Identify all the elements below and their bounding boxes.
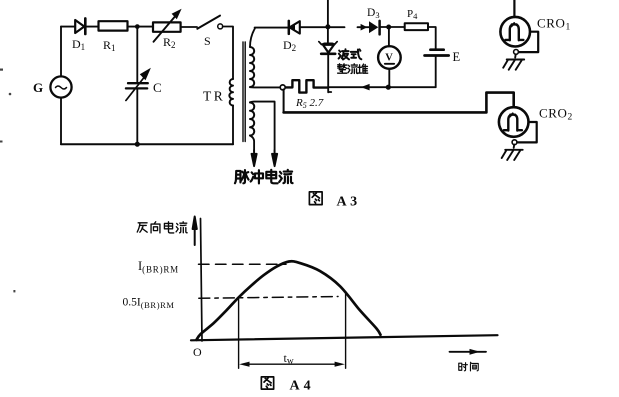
voltmeter V wires (388, 27, 390, 87)
capacitor C arrow (126, 68, 151, 101)
svg-text:D2: D2 (283, 38, 296, 53)
svg-text:R5 2.7: R5 2.7 (295, 97, 324, 110)
svg-text:D3: D3 (367, 7, 380, 20)
bottom rail battery to stack (328, 86, 388, 88)
junction dot C bottom (135, 142, 140, 147)
generator G circle (50, 76, 71, 97)
caption 图 A4 (261, 377, 314, 394)
switch S contact (218, 24, 223, 29)
wire junction up to top edge (327, 0, 329, 27)
svg-text:G: G (33, 80, 43, 95)
label 波式 (339, 49, 362, 59)
secondary2 bottom terminal wire (250, 136, 254, 153)
svg-text:V: V (385, 52, 393, 63)
current pulse curve (197, 261, 381, 340)
transformer secondary 1 coil (upper) (250, 47, 254, 87)
diode D1 (75, 18, 85, 34)
wire R2 to switch (181, 26, 197, 28)
capacitor C branch wire lower (136, 89, 138, 144)
battery E plates (425, 50, 449, 56)
diode D2 (pointing left) (289, 21, 300, 34)
transformer TR primary coil (229, 79, 233, 106)
secondary2 top terminal wire (250, 102, 275, 152)
svg-text:O: O (193, 345, 202, 359)
svg-text:R1: R1 (103, 38, 116, 53)
wire secondary1 top to D2 (250, 28, 288, 47)
junction dot voltmeter bottom (386, 85, 391, 90)
tw arrow (239, 362, 345, 367)
wire G bottom to bottom rail (60, 98, 62, 145)
label 反向电流 (137, 222, 187, 233)
transformer secondary 2 coil (lower) (250, 103, 254, 136)
wire primary bottom to bottom rail (232, 106, 234, 145)
wire R1 to node (128, 26, 154, 28)
svg-text:CRO1: CRO1 (537, 16, 571, 33)
label 脉冲电流 (235, 170, 293, 184)
label 时间 (459, 362, 478, 371)
svg-text:R2: R2 (163, 35, 176, 50)
wire battery bottom to rail (388, 57, 435, 87)
wire switch to transformer primary (223, 27, 233, 80)
x-axis (191, 335, 498, 340)
svg-text:E: E (453, 50, 461, 64)
svg-text:tw: tw (284, 351, 294, 367)
wire D2 to junction and beyond with scan gap (300, 26, 370, 28)
resistor R4 (405, 23, 428, 30)
junction dot at voltmeter top (386, 25, 391, 30)
diode D3 (369, 21, 380, 35)
node junction at top of C (135, 24, 140, 29)
svg-text:TR: TR (203, 89, 225, 104)
svg-text:P4: P4 (407, 8, 418, 21)
svg-text:I(BR)RM: I(BR)RM (138, 259, 179, 275)
svg-text:A4: A4 (290, 379, 315, 394)
dash-dot level line 0.5 I(BR)RM (199, 297, 338, 299)
time axis arrow (450, 349, 487, 355)
tw right boundary line (345, 292, 347, 369)
CRO1 input wire from top edge (513, 0, 515, 17)
label 整流堆 (338, 64, 368, 74)
node open circle secondary1 bottom (280, 85, 285, 90)
capacitor C plates (126, 83, 148, 88)
svg-text:CRO2: CRO2 (539, 106, 573, 123)
rectifier stack diode (pointing down) (319, 42, 337, 54)
long feed wire to CRO2 (284, 93, 514, 113)
tw left boundary line (238, 297, 240, 368)
pulse current arrow left (252, 150, 257, 166)
rectifier stack wire from junction down (327, 27, 329, 44)
variable resistor R2 (153, 9, 182, 42)
rectifier stack wire to rail with stub (328, 54, 331, 93)
capacitor C branch wire upper (136, 27, 138, 83)
wire top rail G to D1 (61, 26, 75, 28)
switch S lever (197, 16, 220, 29)
rectifier bottom rail arrow (left) (361, 84, 370, 91)
svg-text:D1: D1 (72, 37, 85, 52)
dashed level line I(BR)RM (199, 263, 287, 265)
scan specks (0, 69, 15, 293)
wire secondary1 bottom to node (250, 86, 280, 88)
oscilloscope CRO2 (499, 107, 537, 160)
voltmeter V letter and minus (385, 52, 394, 63)
wire D3 to R4 (380, 26, 405, 28)
y-axis (201, 219, 203, 342)
caption 图 A3 (309, 192, 360, 210)
pulse current arrow right (272, 150, 277, 166)
wire D1 to R1 (85, 26, 98, 28)
svg-text:0.5I(BR)RM: 0.5I(BR)RM (123, 297, 175, 311)
y-axis arrow mark (193, 217, 197, 246)
transformer core lines (243, 42, 245, 142)
wire node to CRO2 feed (283, 89, 285, 111)
svg-text:S: S (204, 34, 211, 48)
resistor R5 squarewave (285, 80, 328, 92)
wire G top to top rail (60, 27, 62, 77)
resistor R1 (99, 21, 128, 30)
svg-text:C: C (153, 80, 162, 95)
junction dot D2 node (325, 24, 330, 29)
bottom rail of left loop (61, 143, 233, 145)
oscilloscope CRO1 (500, 17, 538, 70)
current arrow before D3 (361, 24, 368, 31)
svg-text:A3: A3 (337, 195, 361, 210)
voltmeter V circle (378, 46, 401, 69)
wire R4 to battery (428, 27, 436, 49)
